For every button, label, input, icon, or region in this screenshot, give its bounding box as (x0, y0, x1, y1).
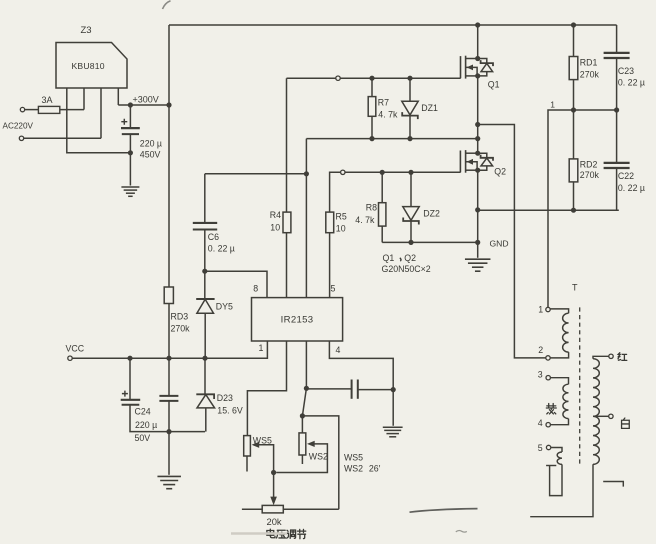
svg-text:Q1: Q1 (383, 253, 395, 263)
svg-text:270k: 270k (580, 70, 600, 80)
svg-text:Q2: Q2 (494, 167, 506, 177)
svg-text:D23: D23 (217, 393, 233, 403)
svg-text:4. 7k: 4. 7k (378, 110, 398, 120)
svg-text:4: 4 (336, 345, 341, 355)
svg-text:RD3: RD3 (171, 312, 189, 322)
svg-text:C6: C6 (208, 232, 219, 242)
svg-text:C22: C22 (618, 171, 634, 181)
svg-text:+300V: +300V (133, 95, 159, 105)
svg-text:4. 7k: 4. 7k (355, 215, 375, 225)
svg-text:DZ2: DZ2 (423, 209, 440, 219)
svg-text:Q2: Q2 (404, 253, 416, 263)
svg-text:220 µ: 220 µ (135, 420, 157, 430)
svg-text:WS5: WS5 (344, 453, 363, 463)
svg-text:G20N50C×2: G20N50C×2 (382, 264, 431, 274)
svg-text:RD2: RD2 (580, 160, 598, 170)
svg-text:Q1: Q1 (488, 80, 500, 90)
svg-text:220 µ: 220 µ (140, 139, 162, 149)
svg-text:10: 10 (336, 224, 346, 234)
svg-text:450V: 450V (140, 150, 161, 160)
svg-text:Z3: Z3 (81, 25, 92, 36)
svg-text:10: 10 (270, 223, 280, 233)
svg-text:2: 2 (538, 345, 543, 355)
svg-text:KBU810: KBU810 (72, 61, 105, 71)
svg-text:270k: 270k (171, 324, 191, 334)
svg-text:GND: GND (490, 239, 509, 249)
svg-text:R8: R8 (366, 203, 377, 213)
svg-text:1: 1 (550, 100, 555, 110)
svg-text:0. 22 µ: 0. 22 µ (618, 183, 645, 193)
svg-text:0. 22 µ: 0. 22 µ (618, 78, 645, 88)
svg-text:5: 5 (331, 284, 336, 294)
svg-text:R4: R4 (270, 210, 281, 220)
svg-text:1: 1 (538, 305, 543, 315)
svg-text:AC220V: AC220V (3, 122, 34, 131)
svg-text:3A: 3A (42, 95, 53, 105)
svg-text:26′: 26′ (369, 463, 381, 473)
svg-text:50V: 50V (135, 433, 151, 443)
svg-text:IR2153: IR2153 (281, 315, 314, 326)
svg-text:5: 5 (538, 443, 543, 453)
svg-text:4: 4 (538, 418, 543, 428)
svg-text:WS2: WS2 (344, 464, 363, 474)
svg-text:DY5: DY5 (216, 302, 233, 312)
svg-text:1: 1 (259, 343, 264, 353)
svg-text:T: T (572, 283, 578, 293)
svg-text:C23: C23 (618, 66, 634, 76)
svg-text:RD1: RD1 (580, 58, 598, 68)
svg-text:VCC: VCC (66, 344, 85, 354)
svg-text:R7: R7 (378, 98, 389, 108)
svg-text:270k: 270k (580, 170, 600, 180)
svg-text:DZ1: DZ1 (421, 103, 438, 113)
svg-text:15. 6V: 15. 6V (217, 406, 243, 416)
svg-text:3: 3 (538, 370, 543, 380)
svg-text:WS2: WS2 (309, 452, 328, 462)
svg-text:0. 22 µ: 0. 22 µ (208, 244, 235, 254)
svg-text:8: 8 (253, 284, 258, 294)
svg-text:20k: 20k (267, 516, 282, 527)
svg-text:R5: R5 (336, 212, 347, 222)
svg-text:C24: C24 (135, 407, 151, 417)
